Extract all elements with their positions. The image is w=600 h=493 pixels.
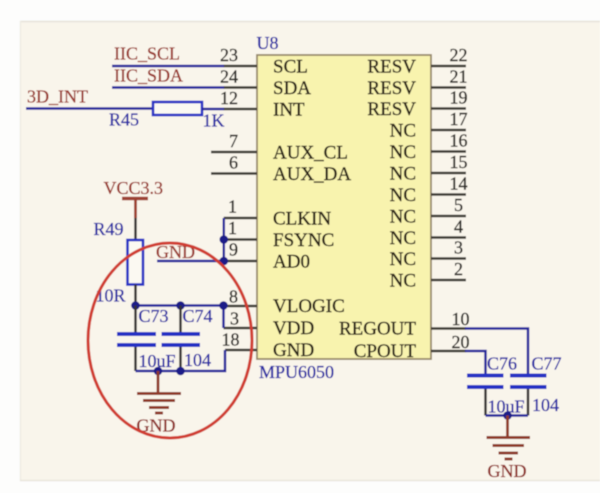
capacitor C73 bbox=[117, 306, 156, 372]
svg-text:GND: GND bbox=[273, 340, 314, 361]
svg-text:C74: C74 bbox=[183, 306, 213, 326]
svg-text:3: 3 bbox=[454, 238, 463, 258]
svg-text:AUX_DA: AUX_DA bbox=[273, 164, 351, 185]
wire C76-C77 bottom rail bbox=[486, 414, 529, 417]
wire VLOGIC to VDD bbox=[222, 306, 225, 329]
pin REGOUT (10) stub bbox=[339, 309, 470, 340]
pin CLKIN (1) stub bbox=[224, 197, 332, 230]
svg-text:23: 23 bbox=[220, 45, 238, 65]
pin GND (18) stub bbox=[222, 330, 315, 362]
pin RESV (21) stub bbox=[367, 67, 467, 100]
resistor R49 bbox=[128, 240, 144, 285]
junction right GND bbox=[503, 411, 512, 420]
pin SCL (23) stub bbox=[220, 45, 308, 78]
svg-text:U8: U8 bbox=[257, 33, 279, 53]
svg-text:REGOUT: REGOUT bbox=[339, 319, 416, 340]
svg-text:14: 14 bbox=[450, 174, 468, 194]
svg-text:2: 2 bbox=[454, 259, 463, 279]
pin RESV (19) stub bbox=[367, 88, 467, 121]
svg-text:1: 1 bbox=[228, 218, 237, 238]
value 10R bbox=[96, 286, 126, 306]
pin FSYNC (1) stub bbox=[224, 218, 334, 251]
annotation red ellipse bbox=[88, 243, 252, 438]
pin NC (2) stub bbox=[390, 259, 466, 292]
junction VLOGIC pin bbox=[219, 301, 228, 310]
svg-text:15: 15 bbox=[450, 152, 468, 172]
svg-text:16: 16 bbox=[450, 131, 468, 151]
svg-text:FSYNC: FSYNC bbox=[273, 230, 334, 251]
svg-text:R45: R45 bbox=[109, 110, 139, 130]
svg-text:17: 17 bbox=[450, 109, 468, 129]
wire R45 to pin 12 bbox=[202, 108, 224, 111]
ground symbol right bbox=[487, 416, 531, 460]
wire CLKIN-FSYNC-AD0 bus bbox=[223, 218, 226, 261]
ground symbol left bbox=[137, 371, 181, 413]
svg-text:NC: NC bbox=[390, 249, 416, 270]
net label GND (AD0) bbox=[156, 242, 195, 262]
svg-text:21: 21 bbox=[450, 67, 468, 87]
resistor R45 bbox=[153, 102, 202, 115]
svg-text:RESV: RESV bbox=[367, 99, 416, 120]
wire GND label to AD0 bbox=[157, 260, 224, 263]
value 104 right bbox=[532, 395, 559, 415]
net label IIC_SCL bbox=[114, 44, 180, 64]
junction C74 bottom bbox=[176, 367, 185, 376]
svg-text:NC: NC bbox=[390, 142, 416, 163]
pin INT (12) stub bbox=[220, 88, 305, 121]
svg-text:104: 104 bbox=[532, 395, 559, 415]
value 104 bbox=[184, 350, 211, 370]
pin VLOGIC (8) stub bbox=[224, 287, 345, 318]
wire VLOGIC rail bbox=[136, 304, 224, 307]
svg-text:CPOUT: CPOUT bbox=[354, 341, 417, 362]
svg-text:C76: C76 bbox=[487, 354, 517, 374]
net label IIC_SDA bbox=[114, 66, 183, 86]
svg-text:18: 18 bbox=[222, 330, 240, 350]
wire 3D_INT to R45 bbox=[26, 107, 153, 110]
pin AD0 (9) stub bbox=[224, 240, 310, 273]
designator C76 bbox=[487, 354, 517, 374]
svg-text:3D_INT: 3D_INT bbox=[27, 87, 88, 107]
capacitor C77 bbox=[510, 376, 547, 416]
svg-text:6: 6 bbox=[229, 153, 238, 173]
label GND right bbox=[488, 461, 527, 481]
wire IIC_SCL bbox=[112, 65, 224, 68]
designator R49 bbox=[94, 219, 124, 239]
svg-text:IIC_SDA: IIC_SDA bbox=[114, 66, 183, 86]
wire CPOUT to C76 bbox=[465, 351, 486, 374]
svg-text:C77: C77 bbox=[532, 354, 562, 374]
svg-text:MPU6050: MPU6050 bbox=[259, 362, 334, 382]
svg-text:NC: NC bbox=[390, 271, 416, 292]
svg-text:R49: R49 bbox=[94, 219, 124, 239]
junction FSYNC bbox=[220, 235, 229, 244]
svg-text:GND: GND bbox=[488, 461, 527, 481]
junction AD0 bbox=[220, 257, 229, 266]
svg-text:NC: NC bbox=[390, 164, 416, 185]
pin CPOUT (20) stub bbox=[354, 332, 470, 362]
designator U8 bbox=[257, 33, 279, 53]
designator C73 bbox=[139, 306, 169, 326]
wire VCC3.3 to R49 bbox=[134, 218, 137, 240]
junction GND stem bbox=[154, 367, 163, 376]
svg-text:CLKIN: CLKIN bbox=[273, 209, 331, 230]
designator C77 bbox=[532, 354, 562, 374]
svg-text:20: 20 bbox=[452, 332, 470, 352]
pin NC (16) stub bbox=[390, 131, 468, 164]
svg-text:4: 4 bbox=[454, 217, 463, 237]
wire cap bottom rail bbox=[136, 350, 226, 371]
svg-text:8: 8 bbox=[229, 287, 238, 307]
svg-text:9: 9 bbox=[229, 240, 238, 260]
svg-text:10: 10 bbox=[452, 309, 470, 329]
designator C74 bbox=[183, 306, 213, 326]
svg-text:AD0: AD0 bbox=[273, 252, 310, 273]
svg-text:NC: NC bbox=[390, 185, 416, 206]
pin SDA (24) stub bbox=[220, 67, 311, 100]
svg-text:AUX_CL: AUX_CL bbox=[273, 143, 348, 164]
pin NC (4) stub bbox=[390, 217, 466, 250]
svg-text:SCL: SCL bbox=[273, 57, 308, 78]
svg-text:INT: INT bbox=[273, 100, 305, 121]
pin NC (15) stub bbox=[390, 152, 468, 185]
junction R49/C73 bbox=[131, 301, 140, 310]
svg-text:24: 24 bbox=[220, 67, 238, 87]
IC U8 body bbox=[257, 55, 431, 359]
svg-text:VCC3.3: VCC3.3 bbox=[104, 178, 164, 198]
pin RESV (22) stub bbox=[367, 45, 467, 78]
pin NC (5) stub bbox=[390, 195, 466, 228]
label GND left bbox=[137, 416, 176, 436]
svg-text:VDD: VDD bbox=[273, 318, 314, 339]
part name MPU6050 bbox=[259, 362, 334, 382]
svg-text:7: 7 bbox=[229, 131, 238, 151]
junction C74 top bbox=[176, 301, 185, 310]
wire REGOUT to C77 bbox=[465, 329, 528, 374]
pin AUX_DA (6) stub bbox=[211, 153, 351, 186]
pin NC (14) stub bbox=[390, 174, 468, 207]
capacitor C76 bbox=[467, 376, 504, 416]
svg-text:SDA: SDA bbox=[273, 78, 311, 99]
wire R49 to VLOGIC rail bbox=[134, 285, 137, 306]
svg-text:RESV: RESV bbox=[367, 57, 416, 78]
svg-text:RESV: RESV bbox=[367, 78, 416, 99]
svg-text:1: 1 bbox=[228, 197, 237, 217]
svg-text:5: 5 bbox=[454, 195, 463, 215]
svg-text:12: 12 bbox=[220, 88, 238, 108]
value 10uF bbox=[139, 351, 176, 371]
svg-text:VLOGIC: VLOGIC bbox=[273, 296, 345, 317]
pin AUX_CL (7) stub bbox=[211, 131, 348, 164]
designator R45 bbox=[109, 110, 139, 130]
svg-text:NC: NC bbox=[390, 207, 416, 228]
svg-text:1K: 1K bbox=[203, 111, 225, 131]
svg-text:22: 22 bbox=[450, 45, 468, 65]
svg-text:3: 3 bbox=[230, 309, 239, 329]
svg-text:104: 104 bbox=[184, 350, 211, 370]
power symbol VCC3.3 bbox=[104, 178, 164, 218]
net label 3D_INT bbox=[27, 87, 88, 107]
svg-text:19: 19 bbox=[450, 88, 468, 108]
value 1K bbox=[203, 111, 225, 131]
svg-text:NC: NC bbox=[390, 228, 416, 249]
value 10uF right bbox=[488, 397, 525, 417]
pin VDD (3) stub bbox=[224, 309, 315, 340]
capacitor C74 bbox=[162, 306, 201, 372]
svg-text:IIC_SCL: IIC_SCL bbox=[114, 44, 180, 64]
svg-text:C73: C73 bbox=[139, 306, 169, 326]
pin NC (3) stub bbox=[390, 238, 466, 271]
pin NC (17) stub bbox=[390, 109, 468, 142]
wire IIC_SDA bbox=[112, 86, 224, 89]
svg-text:NC: NC bbox=[390, 121, 416, 142]
